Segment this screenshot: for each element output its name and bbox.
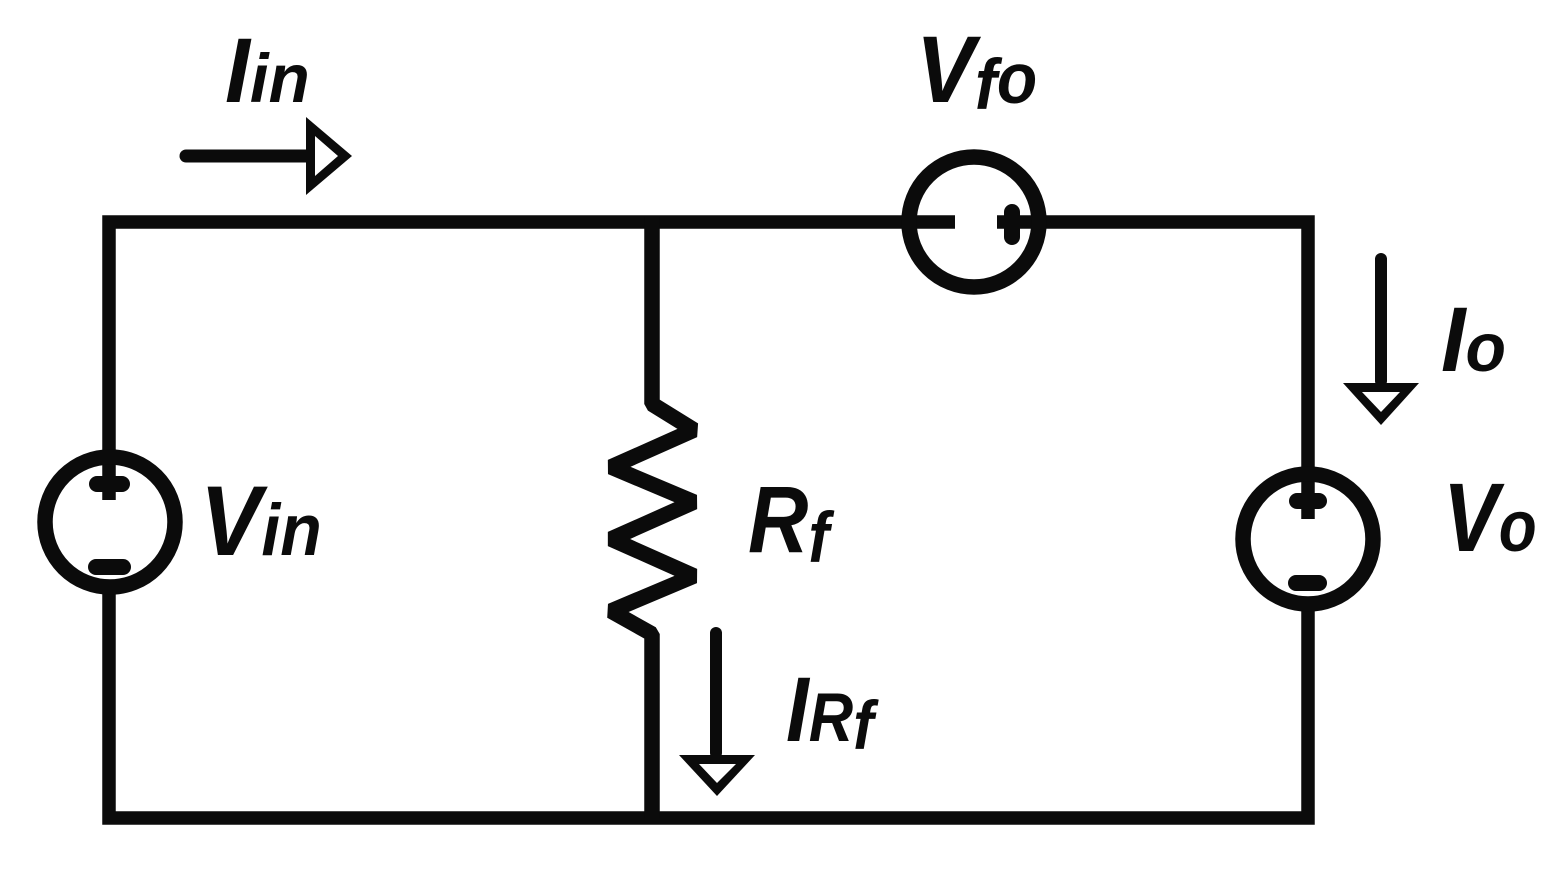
svg-text:Vin: Vin xyxy=(200,466,322,577)
svg-text:Iin: Iin xyxy=(225,20,310,122)
svg-text:Vfo: Vfo xyxy=(916,17,1037,124)
svg-text:Vo: Vo xyxy=(1443,464,1537,572)
svg-text:Io: Io xyxy=(1441,288,1506,391)
svg-text:Rf: Rf xyxy=(748,466,835,578)
svg-text:IRf: IRf xyxy=(786,659,879,764)
